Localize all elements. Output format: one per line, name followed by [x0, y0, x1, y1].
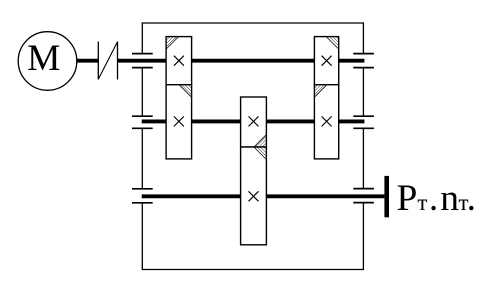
gear Z3 body (middle column upper): [241, 97, 267, 147]
gear Z1 body (input shaft, left column upper): [166, 37, 192, 85]
shaft II segment wall-to-gear2: [142, 119, 166, 123]
bearing shaft III left (upper tick): [132, 188, 153, 190]
gear Z6 body (right column lower): [314, 85, 338, 159]
housing right wall segments: [362, 22, 364, 53]
housing left wall segments: [141, 22, 143, 53]
gear Z2 hatch top-right: [179, 85, 192, 98]
bearing shaft III right (lower tick): [353, 202, 374, 204]
shaft III segment gear4-to-output: [266, 194, 384, 198]
shaft II segment gear2-to-gear3: [192, 119, 241, 123]
gear Z3 cross: [249, 116, 259, 126]
coupling left half: [97, 42, 99, 80]
gear Z4 hatch top-right: [254, 147, 267, 160]
bearing shaft II right (lower tick): [353, 127, 374, 129]
gear Z1 hatch top-left: [166, 37, 179, 50]
svg-text:M: M: [27, 38, 60, 79]
bearing shaft I left (lower tick): [132, 67, 153, 69]
gear Z1 cross: [174, 56, 184, 66]
gear Z6 cross: [322, 116, 332, 126]
gear Z5 body (right column upper): [314, 37, 338, 85]
gear Z2 body (left column lower): [166, 85, 192, 159]
motor M circle: [18, 32, 77, 91]
bearing shaft II left (upper tick): [132, 115, 153, 117]
housing bottom wall: [142, 269, 363, 271]
shaft I segment gear1-to-gear5: [192, 59, 315, 63]
gear Z2 cross: [174, 116, 184, 126]
output load bar: [384, 176, 389, 217]
gear Z5 cross: [322, 56, 332, 66]
shaft I segment gear5-to-right-bearing: [339, 59, 365, 63]
coupling slash: [98, 42, 117, 80]
gear Z6 hatch top-left: [314, 85, 327, 98]
gear Z5 hatch top-right: [326, 37, 339, 50]
bearing shaft I right (upper tick): [353, 53, 374, 55]
shaft I segment coupling-to-gear1: [118, 59, 167, 63]
shaft II segment gear3-to-gear6: [266, 119, 314, 123]
gear Z4 cross: [249, 191, 259, 201]
bearing shaft II right (upper tick): [353, 115, 374, 117]
bearing shaft III left (lower tick): [132, 202, 153, 204]
shaft III segment wall-to-gear4: [142, 194, 241, 198]
coupling right half: [117, 42, 119, 80]
bearing shaft I left (upper tick): [132, 53, 153, 55]
housing top wall: [142, 22, 363, 24]
bearing shaft I right (lower tick): [353, 67, 374, 69]
bearing shaft III right (upper tick): [353, 188, 374, 190]
gear Z3 hatch bottom-right: [254, 135, 267, 148]
bearing shaft II left (lower tick): [132, 127, 153, 129]
shaft I segment motor-to-coupling: [77, 59, 99, 63]
gear Z4 body (middle column lower): [241, 147, 267, 245]
shaft II segment gear6-to-right-bearing: [339, 119, 365, 123]
